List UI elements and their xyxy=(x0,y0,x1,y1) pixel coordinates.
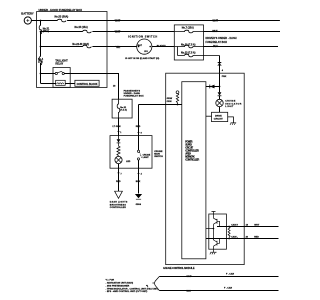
svg-text:BRIGHTNESS: BRIGHTNESS xyxy=(110,204,127,206)
wire bulb to drive circuit xyxy=(219,107,221,113)
inner cpu box xyxy=(182,82,206,259)
cruise main switch box xyxy=(110,136,163,169)
svg-text:WHT: WHT xyxy=(115,19,121,22)
wire drive circuit left xyxy=(206,115,212,117)
wire drive circuit to ground xyxy=(228,117,234,123)
fuse No.10 xyxy=(178,45,204,48)
transistor Q1 xyxy=(214,214,218,229)
svg-text:- SRS PRETENSIONER: - SRS PRETENSIONER xyxy=(106,285,130,287)
svg-text:F - CAN: F - CAN xyxy=(224,287,232,290)
wire coil to control block xyxy=(65,83,75,85)
svg-text:No.22-30 (10A): No.22-30 (10A) xyxy=(72,43,89,46)
svg-text:DRIVE: DRIVE xyxy=(215,115,222,117)
svg-text:SWITCH: SWITCH xyxy=(154,156,163,158)
svg-text:GRN/: GRN/ xyxy=(167,98,173,100)
svg-text:IGNITION SWITCH: IGNITION SWITCH xyxy=(128,35,157,38)
svg-text:UNDER - HOOD FUSE/RELAY BOX: UNDER - HOOD FUSE/RELAY BOX xyxy=(39,8,83,12)
pin tick red xyxy=(137,132,139,134)
wire F-CAN 1 xyxy=(159,276,278,278)
connector C1 xyxy=(217,62,222,66)
svg-text:RED: RED xyxy=(254,236,259,238)
svg-text:(7.5 A): (7.5 A) xyxy=(120,109,127,112)
svg-text:BATTERY: BATTERY xyxy=(21,12,34,16)
svg-text:BLU: BLU xyxy=(213,45,218,48)
fuse No.7 xyxy=(174,30,203,33)
wire to ground g504 xyxy=(138,168,140,193)
svg-text:FUSE/RELAY BOX: FUSE/RELAY BOX xyxy=(206,41,228,44)
terminating resistor R2 xyxy=(228,227,230,238)
svg-text:No.10 (7.5 A): No.10 (7.5 A) xyxy=(181,43,196,46)
main switch contacts xyxy=(138,136,140,151)
driver's under-dash fuse/relay box xyxy=(174,25,236,60)
svg-text:- EPS - 4WD CONTROL UNIT (CVT: - EPS - 4WD CONTROL UNIT (CVT UNIT) xyxy=(106,290,148,293)
svg-text:LT GRN: LT GRN xyxy=(113,126,121,128)
ground transistor xyxy=(210,252,217,254)
svg-text:UNDER - DASH: UNDER - DASH xyxy=(124,92,141,95)
svg-text:BLK: BLK xyxy=(136,181,141,183)
svg-text:CONTROLLER: CONTROLLER xyxy=(110,207,126,209)
wire row 2 xyxy=(41,31,83,33)
taillight relay xyxy=(53,60,70,88)
brace to other units xyxy=(154,277,159,291)
svg-text:*1 : FOR: *1 : FOR xyxy=(106,280,115,282)
wire vertical cont xyxy=(40,32,42,57)
svg-text:No.15 (15A): No.15 (15A) xyxy=(75,26,88,29)
svg-text:WHT: WHT xyxy=(212,30,218,33)
svg-text:PASSENGER'S: PASSENGER'S xyxy=(124,89,141,92)
svg-text:F - CAN: F - CAN xyxy=(226,272,234,275)
svg-text:MAIN: MAIN xyxy=(154,153,160,156)
svg-text:No.21: No.21 xyxy=(120,107,127,109)
battery B1 xyxy=(21,12,34,24)
svg-text:CRUISE: CRUISE xyxy=(143,154,151,156)
wire row 3 right xyxy=(92,46,136,48)
wire lt grn xyxy=(118,118,120,136)
wire red vertical xyxy=(138,105,140,136)
wire fuse23 down xyxy=(219,56,221,87)
transistor output stage box xyxy=(206,212,227,255)
svg-text:ORN: ORN xyxy=(167,101,172,103)
svg-text:WHT: WHT xyxy=(254,225,260,227)
fuse No.23 xyxy=(185,54,220,57)
wire to ground xyxy=(213,249,215,252)
node battery junction xyxy=(40,20,42,22)
node row2 junction xyxy=(40,31,42,33)
svg-text:DASH LIGHTS: DASH LIGHTS xyxy=(110,201,128,204)
svg-text:- NAVIGATION UNIT (NAVI): - NAVIGATION UNIT (NAVI) xyxy=(106,282,134,285)
svg-text:LED: LED xyxy=(126,161,131,163)
wire row 2 right xyxy=(92,31,174,33)
svg-text:CONTROL BLOCK: CONTROL BLOCK xyxy=(77,83,98,86)
diode D3 in switch xyxy=(118,136,120,140)
node diode junction xyxy=(219,86,221,88)
wire to relay contact xyxy=(41,73,56,75)
svg-text:RED: RED xyxy=(136,126,141,128)
wire split inside driver's box xyxy=(174,47,184,56)
wire down xyxy=(219,87,221,93)
wire to brightness controller xyxy=(118,164,120,192)
wire row 3 xyxy=(41,46,83,48)
fuse No.21 vertical xyxy=(117,99,120,118)
under-hood fuse/relay box xyxy=(37,8,107,88)
svg-text:WHT: WHT xyxy=(187,276,193,278)
wire CAN-H xyxy=(217,226,279,228)
svg-text:LIGHT: LIGHT xyxy=(143,157,150,159)
svg-text:CONTROLLER: CONTROLLER xyxy=(185,157,199,161)
legend note list xyxy=(106,280,159,294)
svg-text:RELAY: RELAY xyxy=(55,62,63,65)
svg-text:INDICATOR: INDICATOR xyxy=(225,102,241,105)
cruise indicator light xyxy=(216,99,242,108)
drive circuit xyxy=(212,112,228,121)
node row3 junction xyxy=(40,46,42,48)
wire row 1 right xyxy=(67,20,280,22)
diode D1 xyxy=(210,85,215,89)
wire CAN-L xyxy=(206,238,279,240)
wire WHT out fuse7 xyxy=(204,31,281,33)
diode D2 xyxy=(218,92,222,95)
fuse No.4 vertical xyxy=(39,57,42,65)
svg-text:CAN L: CAN L xyxy=(231,235,238,238)
svg-text:DRIVER'S UNDER - DASH: DRIVER'S UNDER - DASH xyxy=(206,37,237,40)
svg-text:PNK: PNK xyxy=(222,76,227,78)
svg-text:CRUISE: CRUISE xyxy=(225,101,236,103)
node q link xyxy=(213,228,215,230)
wire relay contact output xyxy=(64,74,118,100)
illumination bulb xyxy=(115,156,122,163)
passenger's under-dash fuse/relay box xyxy=(112,89,144,118)
svg-text:7: 7 xyxy=(121,174,123,176)
svg-text:No.7 (15A): No.7 (15A) xyxy=(182,26,194,29)
svg-text:No.53 (50A): No.53 (50A) xyxy=(55,16,69,19)
svg-text:- TPMS MODULATOR - CONTROL UNI: - TPMS MODULATOR - CONTROL UNIT (VSA UNI… xyxy=(106,287,159,290)
wire vertical to relay xyxy=(40,63,42,83)
svg-text:CIRCUIT: CIRCUIT xyxy=(214,119,224,121)
wire illumination feed xyxy=(139,104,182,106)
fuse No.53 row1 xyxy=(58,19,66,22)
svg-text:WHT: WHT xyxy=(115,30,121,33)
ignition switch xyxy=(125,35,159,60)
svg-text:18: 18 xyxy=(113,86,116,88)
svg-text:YEL: YEL xyxy=(116,46,121,49)
pin tick ltgrn xyxy=(117,131,119,133)
resistor R1 in switch xyxy=(117,143,120,157)
svg-text:GAUGE CONTROL MODULE: GAUGE CONTROL MODULE xyxy=(163,267,195,270)
control block xyxy=(75,80,99,86)
ground chassis xyxy=(230,123,236,125)
wire F-CAN 2 xyxy=(159,290,278,292)
to dash lights brightness controller arrow xyxy=(115,191,123,198)
svg-text:BLU: BLU xyxy=(187,290,192,292)
wire diode branch xyxy=(206,86,220,88)
wire battery vertical xyxy=(40,21,42,26)
transistor Q2 xyxy=(214,240,218,249)
svg-text:BLK/YEL: BLK/YEL xyxy=(157,45,167,47)
svg-text:FUSE/RELAY BOX: FUSE/RELAY BOX xyxy=(124,95,145,98)
wire ignition to driver's box xyxy=(152,46,174,48)
wire to relay coil xyxy=(41,83,56,85)
svg-text:CAN H: CAN H xyxy=(231,224,238,227)
svg-text:G504: G504 xyxy=(136,203,142,206)
svg-text:4: 4 xyxy=(222,69,224,72)
node relay contact feed xyxy=(40,73,42,75)
svg-text:9: 9 xyxy=(141,132,143,134)
svg-text:1: 1 xyxy=(120,132,122,134)
dimmer element circle-zigzag xyxy=(176,91,179,105)
power stub xyxy=(212,212,216,215)
wire to bulb xyxy=(219,96,221,100)
fuse No.15 row2 xyxy=(83,30,91,33)
svg-text:LIGHT: LIGHT xyxy=(225,106,234,108)
fuse No.22 row3 xyxy=(83,45,91,48)
svg-text:IG HOT IN ON (II) AND START (I: IG HOT IN ON (II) AND START (III) xyxy=(125,57,159,60)
svg-text:No.23 (7.5 A): No.23 (7.5 A) xyxy=(181,52,196,55)
gauge control module box xyxy=(163,73,244,270)
node zigzag junction xyxy=(177,104,179,106)
svg-text:RED: RED xyxy=(116,181,121,183)
svg-text:CRUISE: CRUISE xyxy=(154,151,163,153)
wire battery row 1 xyxy=(31,20,57,22)
svg-text:4: 4 xyxy=(141,173,143,176)
ground G504 xyxy=(135,194,142,198)
svg-text:WHT: WHT xyxy=(213,19,219,22)
wire BLU out fuse10 xyxy=(204,46,279,48)
fuse No.51 vertical xyxy=(39,26,42,34)
